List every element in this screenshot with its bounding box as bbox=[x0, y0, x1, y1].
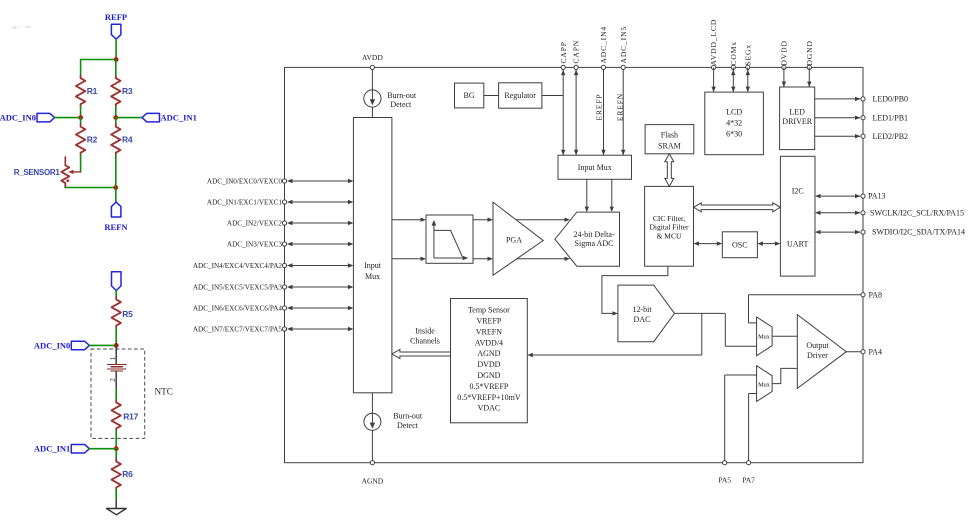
svg-text:UART: UART bbox=[787, 240, 808, 249]
svg-text:PA8: PA8 bbox=[869, 290, 883, 299]
svg-text:ADC_IN3/VEXC3: ADC_IN3/VEXC3 bbox=[227, 241, 283, 249]
wire bbox=[115, 118, 117, 124]
svg-text:Detect: Detect bbox=[397, 421, 419, 430]
mux Mux1 bbox=[757, 317, 773, 356]
svg-text:ADC_IN5/EXC5/VEXC5/PA3: ADC_IN5/EXC5/VEXC5/PA3 bbox=[193, 284, 283, 292]
svg-text:DVDD: DVDD bbox=[780, 40, 789, 65]
pin ADC_IN3/VEXC3 bbox=[227, 241, 354, 249]
svg-text:Temp Sensor: Temp Sensor bbox=[468, 306, 510, 315]
wire PA8 to Mux1 bbox=[749, 295, 864, 323]
wire PA7 to Mux2 bbox=[749, 394, 757, 463]
svg-text:ADC_IN7/EXC7/VEXC7/PA5: ADC_IN7/EXC7/VEXC7/PA5 bbox=[193, 326, 283, 334]
wire bbox=[115, 449, 117, 459]
block I2C UART bbox=[780, 156, 815, 276]
svg-text:ADC_IN0/EXC0/VEXC0: ADC_IN0/EXC0/VEXC0 bbox=[207, 178, 282, 186]
resistor R6 bbox=[112, 459, 134, 490]
left pins group bbox=[193, 178, 354, 334]
svg-text:ADC_IN1/EXC1/VEXC1: ADC_IN1/EXC1/VEXC1 bbox=[207, 199, 282, 207]
NTC dashed box bbox=[91, 349, 145, 438]
node junction bottom bbox=[113, 185, 118, 190]
svg-text:ADC_IN1: ADC_IN1 bbox=[34, 444, 70, 454]
pin ADC_IN4/EXC4/VEXC4/PA2 bbox=[193, 262, 354, 270]
wire bbox=[115, 328, 117, 345]
wire COMx/SEGx bbox=[731, 67, 735, 92]
block Flash SRAM bbox=[645, 125, 694, 154]
resistor R5 bbox=[112, 297, 134, 328]
svg-text:6*30: 6*30 bbox=[726, 130, 742, 139]
wire bbox=[81, 59, 117, 61]
wire DVDD/DGND bbox=[807, 67, 811, 87]
svg-text:R1: R1 bbox=[87, 86, 98, 96]
resistor R17 bbox=[112, 400, 139, 431]
hollow arrow CIC-I2C bbox=[694, 203, 781, 212]
pin COMx bbox=[729, 41, 738, 69]
wire bbox=[116, 117, 142, 119]
svg-text:AGND: AGND bbox=[362, 477, 384, 486]
svg-text:LED2/PB2: LED2/PB2 bbox=[873, 132, 909, 141]
block LCD bbox=[705, 92, 764, 155]
svg-text:DGND: DGND bbox=[477, 371, 500, 380]
ground bbox=[107, 500, 127, 515]
svg-text:SWDIO/I2C_SDA/TX/PA14: SWDIO/I2C_SDA/TX/PA14 bbox=[872, 228, 965, 237]
hollow arrow TempSensor to InputMux bbox=[392, 350, 451, 359]
svg-text:Input: Input bbox=[364, 261, 382, 270]
svg-text:R17: R17 bbox=[123, 412, 138, 422]
pin ADC_IN2/VEXC2 bbox=[227, 220, 354, 228]
svg-text:R6: R6 bbox=[122, 469, 133, 479]
svg-text:AVDD: AVDD bbox=[362, 53, 383, 62]
pin AVDD bbox=[370, 65, 374, 69]
wire DVDD/DGND bbox=[782, 67, 786, 87]
svg-text:ADC_IN4: ADC_IN4 bbox=[599, 26, 608, 64]
block LED DRIVER bbox=[780, 87, 815, 150]
svg-text:Mux: Mux bbox=[758, 382, 771, 389]
wire bbox=[115, 107, 117, 118]
mux Mux2 bbox=[757, 366, 773, 402]
resistor R2 bbox=[76, 124, 98, 155]
battery thermistor BT bbox=[107, 345, 125, 388]
top pins group bbox=[559, 19, 814, 92]
svg-text:VREFP: VREFP bbox=[476, 317, 501, 326]
arrow filter to PGA 1 bbox=[473, 218, 493, 222]
svg-text:PA5: PA5 bbox=[718, 476, 731, 485]
resistor R4 bbox=[111, 124, 133, 155]
svg-text:Input Mux: Input Mux bbox=[578, 163, 612, 172]
svg-text:0.5*VREFP: 0.5*VREFP bbox=[469, 382, 508, 391]
pin DVDD bbox=[780, 40, 789, 69]
svg-text:NTC: NTC bbox=[155, 387, 173, 397]
wire PA5 to Mux2 bbox=[725, 375, 757, 463]
port top (unlabeled) bbox=[112, 272, 122, 291]
pin CAPN bbox=[572, 40, 581, 70]
wire PA13 bbox=[815, 192, 886, 201]
svg-text:ADC_IN5: ADC_IN5 bbox=[619, 26, 628, 64]
svg-text:1: 1 bbox=[108, 356, 117, 360]
port ADC_IN1 (schem2) bbox=[71, 445, 89, 454]
block OSC bbox=[722, 232, 757, 258]
wire bbox=[371, 107, 373, 117]
svg-text:Inside: Inside bbox=[415, 327, 435, 336]
op-amp Output Driver bbox=[797, 315, 846, 389]
svg-text:LED1/PB1: LED1/PB1 bbox=[873, 113, 909, 122]
wire bbox=[115, 490, 117, 501]
wire bbox=[80, 107, 82, 118]
resistor R3 bbox=[111, 76, 133, 107]
svg-text:ADC_IN2/VEXC2: ADC_IN2/VEXC2 bbox=[227, 220, 283, 228]
svg-text:I2C: I2C bbox=[792, 186, 804, 195]
block Input Mux (left) bbox=[353, 118, 392, 393]
svg-text:SRAM: SRAM bbox=[658, 142, 681, 151]
wire bottom rail bbox=[65, 187, 116, 189]
wire bbox=[80, 60, 82, 76]
svg-text:24-bit Delta-: 24-bit Delta- bbox=[573, 230, 614, 239]
wire bbox=[115, 155, 117, 202]
svg-text:Output: Output bbox=[806, 341, 829, 350]
wire BG-Regulator bbox=[484, 95, 499, 97]
pin PA8 bbox=[861, 290, 882, 299]
svg-text:SEGx: SEGx bbox=[743, 44, 752, 66]
arrow PGA to ADC 1 bbox=[516, 218, 570, 222]
svg-text:4*32: 4*32 bbox=[726, 119, 742, 128]
block 24-bit Delta-Sigma ADC bbox=[555, 212, 620, 266]
wire SWDIO/I2C_SDA/TX/PA14 bbox=[815, 228, 965, 237]
pin AGND bbox=[370, 461, 374, 465]
label Inside Channels bbox=[410, 327, 440, 346]
PGA triangle bbox=[493, 202, 543, 275]
svg-text:Regulator: Regulator bbox=[504, 91, 536, 100]
wire bbox=[115, 291, 117, 297]
block BG bbox=[455, 83, 484, 108]
pin ADC_IN5 bbox=[619, 26, 628, 70]
wire Regulator-CAPP bbox=[542, 95, 563, 97]
svg-text:PGA: PGA bbox=[506, 236, 522, 245]
svg-text:Channels: Channels bbox=[410, 337, 440, 346]
svg-text:BG: BG bbox=[464, 91, 475, 100]
port REFP bbox=[111, 24, 121, 39]
arrow filter to PGA 2 bbox=[473, 257, 493, 261]
svg-text:R2: R2 bbox=[87, 135, 98, 145]
svg-text:ADC_IN1: ADC_IN1 bbox=[161, 113, 197, 123]
artifact smudge bbox=[13, 26, 31, 29]
svg-text:REFN: REFN bbox=[104, 222, 128, 232]
svg-text:LCD: LCD bbox=[726, 108, 742, 117]
port ADC_IN0 bbox=[37, 113, 55, 122]
svg-text:REFP: REFP bbox=[105, 12, 127, 22]
svg-text:PA4: PA4 bbox=[869, 347, 883, 356]
wire Mux2 to OutputDriver bbox=[772, 368, 797, 383]
hollow arrow SRAM-CIC bbox=[665, 154, 674, 187]
wire bbox=[89, 344, 116, 346]
svg-text:R4: R4 bbox=[122, 135, 133, 145]
svg-text:Burn-out: Burn-out bbox=[387, 91, 417, 100]
svg-text:LED0/PB0: LED0/PB0 bbox=[873, 95, 909, 104]
pin ADC_IN5/EXC5/VEXC5/PA3 bbox=[193, 284, 354, 292]
svg-text:CIC Filter,: CIC Filter, bbox=[653, 214, 685, 223]
bottom section group bbox=[392, 266, 882, 484]
wire DAC output bbox=[675, 313, 757, 346]
right section group bbox=[645, 87, 965, 276]
node junction top bbox=[114, 57, 119, 62]
wire CAPP bbox=[561, 67, 565, 155]
svg-text:DRIVER: DRIVER bbox=[782, 117, 812, 126]
arrow CIC-OSC bbox=[694, 241, 723, 245]
svg-text:AGND: AGND bbox=[477, 349, 500, 358]
wire LED1/PB1 bbox=[815, 113, 908, 122]
block Temp Sensor internal channels bbox=[451, 299, 528, 423]
svg-text:Driver: Driver bbox=[807, 351, 828, 360]
svg-text:COMx: COMx bbox=[729, 41, 738, 65]
wire AVDD_LCD to LCD bbox=[711, 67, 715, 92]
pin ADC_IN7/EXC7/VEXC7/PA5 bbox=[193, 326, 354, 334]
svg-text:ADC_IN0: ADC_IN0 bbox=[34, 340, 70, 350]
pin DGND bbox=[805, 40, 814, 69]
node junction ADC_IN0 bbox=[78, 115, 83, 120]
wire CIC to DAC bbox=[602, 266, 668, 315]
arrow InputMuxTop to ADC 1 bbox=[585, 179, 589, 212]
wire Input Mux to burn-out bottom bbox=[371, 393, 373, 413]
wire ADC_IN5 bbox=[621, 67, 625, 155]
svg-text:DVDD: DVDD bbox=[477, 360, 500, 369]
svg-text:Detect: Detect bbox=[390, 100, 412, 109]
burn-out detect bottom bbox=[364, 413, 381, 430]
wire DAC to TempSensor bbox=[527, 313, 702, 357]
svg-text:AVDD_LCD: AVDD_LCD bbox=[709, 19, 718, 66]
wire AVDD to burn-out bbox=[371, 67, 373, 90]
svg-text:2: 2 bbox=[108, 378, 117, 382]
svg-text:ADC_IN6/EXC6/VEXC6/PA4: ADC_IN6/EXC6/VEXC6/PA4 bbox=[193, 305, 283, 313]
arrow InputMux to filter 2 bbox=[392, 257, 426, 261]
wire bbox=[89, 448, 116, 450]
block filter bbox=[426, 215, 473, 263]
port REFN bbox=[111, 202, 121, 217]
pin ADC_IN6/EXC6/VEXC6/PA4 bbox=[193, 305, 354, 313]
arrow InputMux to filter 1 bbox=[392, 218, 426, 222]
svg-text:PA7: PA7 bbox=[742, 476, 755, 485]
wire bbox=[115, 388, 117, 400]
svg-text:Flash: Flash bbox=[661, 131, 678, 140]
port ADC_IN1 bbox=[142, 113, 160, 122]
wire bbox=[115, 431, 117, 449]
node junction ADC_IN1 bbox=[114, 446, 119, 451]
wire Mux1 to OutputDriver bbox=[772, 335, 797, 337]
BLOCKDIAG bbox=[193, 19, 965, 486]
wire LED2/PB2 bbox=[815, 132, 908, 141]
svg-text:& MCU: & MCU bbox=[657, 231, 682, 240]
wire ADC_IN4 bbox=[601, 67, 605, 155]
svg-text:Burn-out: Burn-out bbox=[393, 412, 423, 421]
arrow InputMuxTop to ADC 2 bbox=[610, 179, 614, 212]
svg-text:AVDD/4: AVDD/4 bbox=[475, 338, 503, 347]
pin PA5 bbox=[718, 461, 731, 485]
pin CAPP bbox=[559, 41, 568, 69]
pin PA4 bbox=[861, 347, 882, 356]
port ADC_IN0 (schem2) bbox=[71, 341, 89, 350]
svg-text:OSC: OSC bbox=[732, 241, 748, 250]
svg-text:DGND: DGND bbox=[805, 40, 814, 65]
svg-text:R3: R3 bbox=[122, 86, 133, 96]
svg-text:LED: LED bbox=[789, 108, 805, 117]
pin AVDD_LCD bbox=[709, 19, 718, 70]
svg-text:CAPP: CAPP bbox=[559, 41, 568, 63]
node junction ADC_IN0 bbox=[114, 343, 119, 348]
svg-text:Digital Filter: Digital Filter bbox=[650, 223, 689, 232]
pin SEGx bbox=[743, 44, 752, 70]
SCHEM1 bbox=[0, 12, 197, 232]
potentiometer R_SENSOR1 bbox=[14, 157, 81, 188]
svg-text:12-bit: 12-bit bbox=[632, 305, 652, 314]
wire bbox=[55, 117, 81, 119]
svg-text:ADC_IN4/EXC4/VEXC4/PA2: ADC_IN4/EXC4/VEXC4/PA2 bbox=[193, 262, 283, 270]
wire LED0/PB0 bbox=[815, 95, 908, 104]
block Input Mux (top) bbox=[558, 155, 632, 179]
node junction ADC_IN1 bbox=[113, 115, 118, 120]
wire CAPN bbox=[574, 67, 578, 155]
wire bbox=[80, 118, 82, 124]
svg-text:EREFN: EREFN bbox=[615, 93, 624, 121]
svg-text:SWCLK/I2C_SCL/RX/PA15: SWCLK/I2C_SCL/RX/PA15 bbox=[870, 208, 964, 217]
svg-text:VREFN: VREFN bbox=[476, 327, 502, 336]
svg-text:Sigma ADC: Sigma ADC bbox=[575, 239, 614, 248]
svg-text:EREFP: EREFP bbox=[594, 93, 603, 120]
wire bbox=[115, 60, 117, 76]
svg-text:Mux: Mux bbox=[365, 272, 380, 281]
SCHEM2 bbox=[34, 272, 173, 515]
svg-text:R5: R5 bbox=[122, 309, 133, 319]
svg-text:R_SENSOR1: R_SENSOR1 bbox=[14, 168, 61, 177]
block Regulator bbox=[499, 83, 542, 108]
wire bbox=[115, 39, 117, 59]
wire burn-out to AGND bbox=[371, 430, 373, 462]
block 12-bit DAC bbox=[618, 285, 675, 342]
svg-text:VDAC: VDAC bbox=[478, 404, 501, 413]
svg-text:ADC_IN0: ADC_IN0 bbox=[0, 113, 36, 123]
wire SWCLK/I2C_SCL/RX/PA15 bbox=[815, 208, 964, 217]
wire OutputDriver to PA4 bbox=[846, 351, 863, 353]
pin ADC_IN0/EXC0/VEXC0 bbox=[207, 178, 353, 186]
arrow OSC-UART bbox=[757, 241, 780, 245]
chip border bbox=[285, 67, 864, 462]
pin ADC_IN1/EXC1/VEXC1 bbox=[207, 199, 353, 207]
burn-out detect top bbox=[364, 90, 381, 107]
block CIC Filter Digital Filter MCU bbox=[645, 186, 694, 266]
svg-text:CAPN: CAPN bbox=[572, 40, 581, 64]
resistor R1 bbox=[76, 76, 98, 107]
arrow PGA to ADC 2 bbox=[517, 257, 570, 261]
svg-text:0.5*VREFP+10mV: 0.5*VREFP+10mV bbox=[457, 393, 521, 402]
svg-text:Mux: Mux bbox=[758, 334, 771, 341]
pin PA7 bbox=[742, 461, 755, 485]
svg-text:DAC: DAC bbox=[634, 315, 651, 324]
pin ADC_IN4 bbox=[599, 26, 608, 70]
wire COMx/SEGx bbox=[746, 67, 750, 92]
svg-text:PA13: PA13 bbox=[868, 192, 886, 201]
wire bbox=[80, 155, 82, 172]
